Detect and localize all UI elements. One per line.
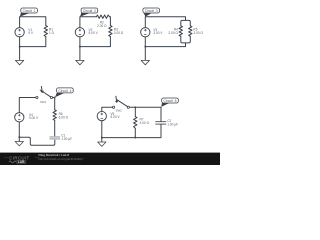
voltage source V1 [15, 28, 34, 37]
svg-text:http://circuitlab.com/c/gab4bh: http://circuitlab.com/c/gab4bh6d8q7/ [38, 157, 83, 161]
svg-text:SW1: SW1 [40, 100, 47, 104]
voltage source V5 [97, 111, 120, 120]
svg-text:Circuit_1: Circuit_1 [23, 9, 36, 13]
svg-text:Circuit_2: Circuit_2 [83, 9, 96, 13]
CircuitLab logo [4, 155, 40, 164]
svg-text:2.00 Ω: 2.00 Ω [168, 31, 178, 35]
svg-text:SW2: SW2 [116, 109, 123, 113]
svg-text:LAB: LAB [18, 160, 25, 164]
resistor R5 [189, 26, 204, 37]
switch SW2 [113, 96, 130, 112]
junction node circuit 4 ground [19, 136, 21, 138]
resistor R7 [134, 117, 150, 129]
resistor R2 (horizontal) [97, 15, 110, 28]
ground circuit 5 [98, 138, 106, 147]
capacitor C1 [50, 133, 73, 141]
ground circuit 4 [15, 137, 23, 146]
voltage source V3 [141, 28, 164, 37]
ground circuit 1 [15, 47, 23, 65]
resistor R3 [109, 26, 124, 37]
footer bar [0, 153, 220, 165]
wire loop circuit 3 [145, 17, 185, 47]
svg-text:4.00 Ω: 4.00 Ω [140, 121, 150, 125]
svg-text:Circuit_3: Circuit_3 [145, 9, 158, 13]
svg-text:Circuit_5: Circuit_5 [163, 99, 176, 103]
voltage source V4 [15, 113, 39, 122]
voltage source V2 [75, 28, 98, 37]
wire loop circuit 2 [80, 17, 111, 47]
label flag Circuit_5 [161, 98, 178, 107]
switch SW1 [36, 87, 53, 105]
junction node circuit 2 [79, 46, 81, 48]
svg-text:5.00 V: 5.00 V [89, 31, 99, 35]
resistor R4 [168, 26, 182, 37]
svg-text:5.00 V: 5.00 V [110, 115, 120, 119]
junction node circuit 3 [145, 46, 147, 48]
svg-text:3.00 Ω: 3.00 Ω [114, 31, 124, 35]
junction node circuit 5 ground [101, 137, 103, 139]
junction nodes R7 [135, 107, 137, 109]
resistor R1 [44, 26, 55, 37]
ground circuit 3 [141, 47, 149, 65]
ground circuit 2 [76, 47, 84, 65]
capacitor C2 [155, 119, 178, 127]
svg-text:3.00 Ω: 3.00 Ω [193, 31, 203, 35]
svg-text:Circuit_4: Circuit_4 [58, 89, 71, 93]
svg-text:3.00 V: 3.00 V [153, 31, 163, 35]
label flag Circuit_2 [80, 8, 98, 17]
svg-text:2.00 Ω: 2.00 Ω [97, 24, 107, 28]
wire loop circuit 5 [102, 107, 161, 137]
svg-text:1 Ω: 1 Ω [49, 31, 55, 35]
svg-text:1.00 µF: 1.00 µF [167, 122, 178, 126]
resistor R6 [53, 110, 69, 121]
wire loop circuit 4 [19, 98, 55, 146]
svg-text:6.00 Ω: 6.00 Ω [59, 116, 69, 120]
svg-text:1.00 µF: 1.00 µF [61, 137, 72, 141]
junction node circuit 1 [19, 46, 21, 48]
parallel bars circuit 3 [181, 20, 191, 43]
junction node circuit 4 top [54, 97, 56, 99]
label flag Circuit_4 [55, 88, 73, 97]
label flag Circuit_1 [20, 8, 38, 17]
svg-text:9.00 V: 9.00 V [29, 116, 39, 120]
wire loop circuit 1 [20, 17, 46, 47]
label flag Circuit_3 [143, 8, 160, 17]
